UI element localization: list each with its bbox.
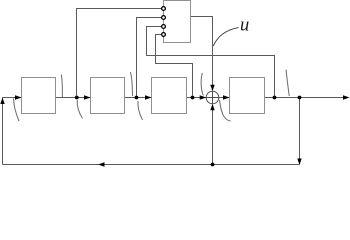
svg-text:u: u	[240, 16, 249, 36]
